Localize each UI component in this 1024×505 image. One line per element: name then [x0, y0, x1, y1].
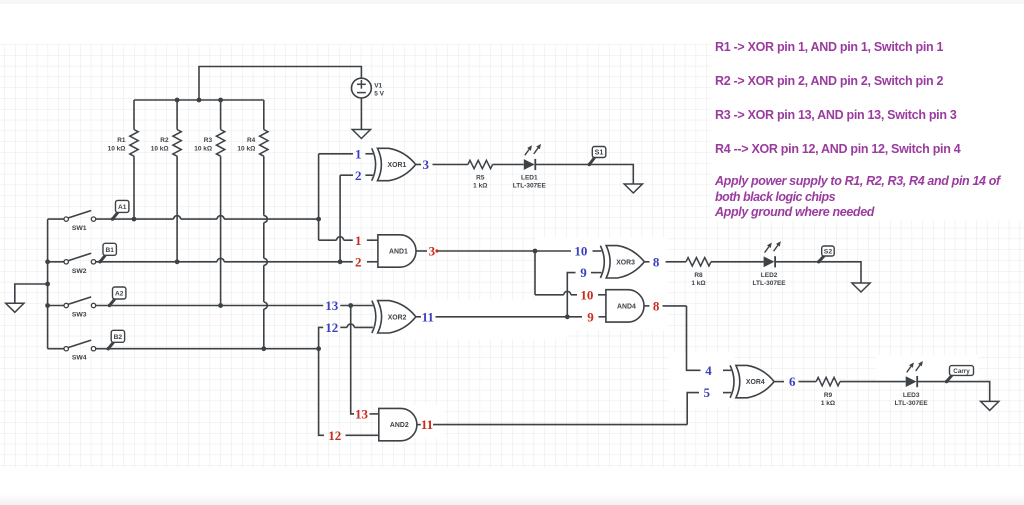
- node AND1 out marker: [435, 249, 438, 252]
- wire XOR3 out row: [666, 261, 686, 263]
- svg-text:8: 8: [653, 254, 660, 269]
- resistor R8 1 k&#937;: [686, 258, 711, 287]
- wire SW1 row: [96, 218, 174, 220]
- led LED2 LTL-307EE: [753, 241, 787, 287]
- svg-text:Carry: Carry: [953, 368, 970, 375]
- wire XOR3 pin9 connector: [567, 273, 575, 317]
- ground left: [6, 303, 24, 312]
- wire XOR1 out stub: [416, 164, 421, 166]
- wire XOR1 out row: [433, 164, 468, 166]
- wire power bus: [134, 99, 264, 101]
- wire AND2 out row: [433, 424, 687, 426]
- svg-text:S1: S1: [595, 148, 604, 157]
- resistor R4 10 k&#937;: [237, 130, 268, 157]
- wire AND1 pin1 row: [319, 239, 337, 241]
- xor gate XOR4: [730, 365, 774, 397]
- svg-text:LED2: LED2: [761, 272, 778, 279]
- led LED3 LTL-307EE: [895, 361, 929, 407]
- wire XOR4 out row: [799, 381, 817, 383]
- and gate AND2: [379, 408, 417, 440]
- svg-text:8: 8: [653, 299, 660, 314]
- wire AND2 pin12 row: [346, 434, 380, 436]
- wire R2 top: [176, 100, 178, 130]
- svg-text:1: 1: [355, 146, 362, 161]
- note line 5: [715, 174, 1000, 188]
- svg-text:5: 5: [704, 385, 711, 400]
- svg-text:R4: R4: [247, 137, 256, 144]
- wire AND1 pin2 stub: [367, 261, 378, 263]
- wire XOR1 pin2 row: [340, 174, 353, 176]
- svg-text:3: 3: [429, 244, 436, 259]
- and gate AND4: [606, 290, 644, 322]
- wire R9 to LED3: [840, 381, 906, 383]
- wire LED1 to ground corner: [536, 165, 633, 185]
- svg-text:R8: R8: [694, 272, 703, 279]
- led LED1 LTL-307EE: [513, 144, 547, 190]
- node R3-SW3: [218, 303, 223, 308]
- svg-text:10 kΩ: 10 kΩ: [194, 145, 212, 152]
- power source V1: [352, 78, 385, 98]
- svg-text:R1: R1: [117, 137, 126, 144]
- svg-text:2: 2: [355, 168, 362, 183]
- svg-text:5 V: 5 V: [374, 90, 384, 97]
- svg-text:R9: R9: [824, 392, 833, 399]
- wire XOR1 pin1 stub: [365, 153, 373, 155]
- svg-text:XOR2: XOR2: [388, 314, 407, 321]
- wire XOR2 out row: [436, 316, 583, 318]
- node SW1-branch: [316, 217, 321, 222]
- svg-text:SW3: SW3: [72, 312, 87, 319]
- wire AND2 pin12 connector: [319, 349, 324, 436]
- svg-text:LED3: LED3: [903, 392, 920, 399]
- svg-text:AND2: AND2: [390, 422, 409, 429]
- wire SW4 row: [96, 348, 319, 350]
- wire switch common vertical: [47, 219, 49, 349]
- note line 6: [715, 190, 835, 204]
- svg-text:R3: R3: [204, 137, 213, 144]
- svg-text:13: 13: [325, 298, 339, 313]
- wire R4 bottom: [263, 156, 265, 215]
- xor gate XOR3: [600, 246, 644, 278]
- wire XOR1 pin1 connector: [318, 154, 320, 240]
- wire XOR3 out stub: [645, 261, 650, 263]
- wire XOR4 pin4 stub: [723, 369, 731, 371]
- svg-text:12: 12: [325, 320, 338, 335]
- xor gate XOR2: [372, 301, 416, 333]
- wire LED3 to ground corner: [918, 382, 990, 402]
- svg-text:SW1: SW1: [72, 225, 87, 232]
- wire R1 bottom: [133, 156, 135, 219]
- node B2: [107, 330, 125, 350]
- wire AND2 out stub: [417, 424, 421, 426]
- node R1-SW1: [132, 217, 137, 222]
- node R2-SW2: [175, 259, 180, 264]
- svg-text:1 kΩ: 1 kΩ: [691, 280, 705, 287]
- svg-text:2: 2: [355, 254, 362, 269]
- node SW4-branch: [316, 346, 321, 351]
- resistor R5 1 k&#937;: [468, 160, 493, 189]
- node R4-SW4: [261, 346, 266, 351]
- svg-text:10: 10: [580, 287, 593, 302]
- svg-text:LTL-307EE: LTL-307EE: [753, 280, 787, 287]
- node bus-R2: [175, 98, 180, 103]
- svg-text:A2: A2: [115, 291, 124, 298]
- wire SW2 left: [48, 261, 64, 263]
- wire V1 top feed: [199, 67, 361, 101]
- wire AND4 to XOR4 pin4: [687, 306, 701, 370]
- node common-SW2: [45, 259, 50, 264]
- svg-text:11: 11: [421, 417, 433, 432]
- svg-text:LTL-307EE: LTL-307EE: [513, 183, 547, 190]
- wire AND2 pin13 connector: [351, 306, 354, 414]
- ground S2: [852, 283, 870, 292]
- note line 1: [715, 40, 943, 54]
- svg-text:13: 13: [355, 407, 369, 422]
- node S1: [588, 147, 606, 167]
- note line 2: [715, 74, 943, 88]
- wire XOR4 pin5 stub: [723, 392, 731, 394]
- wire SW2 row: [96, 261, 217, 263]
- node common-SW3: [45, 303, 50, 308]
- svg-text:10 kΩ: 10 kΩ: [108, 145, 126, 152]
- switch SW3: [64, 297, 96, 319]
- wire R8 to LED2: [711, 261, 764, 263]
- wire XOR3 pin9 stub: [591, 272, 601, 274]
- wire R1 top: [133, 100, 135, 130]
- node common-ground: [45, 282, 50, 287]
- wire R4 top: [263, 100, 265, 130]
- resistor R2 10 k&#937;: [151, 130, 182, 157]
- wire AND1 pin2 row: [340, 261, 353, 263]
- node bus-V1: [197, 98, 202, 103]
- svg-text:AND1: AND1: [389, 249, 408, 256]
- svg-text:XOR1: XOR1: [388, 162, 407, 169]
- wire R2 bottom: [176, 156, 178, 262]
- wire SW1 left: [48, 218, 64, 220]
- wire SW3 row to pin 13: [96, 305, 324, 307]
- svg-text:V1: V1: [374, 82, 382, 89]
- wire XOR1 pin2 connector: [339, 175, 341, 262]
- svg-text:6: 6: [789, 374, 796, 389]
- wire AND1 out stub: [416, 250, 427, 252]
- node B1: [98, 243, 116, 263]
- wire R3 top: [220, 100, 222, 130]
- wire SW3 left: [48, 305, 64, 307]
- svg-text:9: 9: [580, 265, 587, 280]
- svg-text:B2: B2: [114, 334, 123, 341]
- svg-text:LED1: LED1: [521, 175, 538, 182]
- ground under V1: [352, 130, 370, 139]
- wire XOR3 pin10 stub: [593, 250, 602, 252]
- node SW3-branch: [348, 303, 353, 308]
- note line 3: [715, 108, 957, 122]
- resistor R3 10 k&#937;: [194, 130, 225, 157]
- node bus-R3: [218, 98, 223, 103]
- svg-text:1: 1: [355, 233, 362, 248]
- wire SW4 left: [48, 348, 64, 350]
- svg-text:AND4: AND4: [617, 303, 636, 310]
- svg-text:3: 3: [423, 157, 430, 172]
- svg-text:R2: R2: [160, 137, 169, 144]
- note line 4: [715, 142, 960, 156]
- wire XOR1 pin1 row: [319, 153, 353, 155]
- switch SW1: [64, 211, 96, 233]
- svg-text:XOR3: XOR3: [616, 259, 635, 266]
- wire R5 to LED1: [493, 164, 524, 166]
- svg-text:12: 12: [328, 428, 341, 443]
- resistor R1 10 k&#937;: [108, 130, 139, 157]
- node SW2-branch: [338, 259, 343, 264]
- switch SW4: [64, 340, 96, 362]
- wire branch to AND4 pin10: [535, 294, 564, 296]
- svg-text:S2: S2: [824, 249, 833, 256]
- svg-text:R5: R5: [476, 174, 485, 181]
- node Carry: [945, 366, 974, 384]
- wire AND2 to XOR4 pin5: [687, 393, 699, 425]
- wire LED2 to ground corner: [776, 262, 861, 283]
- svg-text:XOR4: XOR4: [746, 379, 765, 386]
- svg-text:SW2: SW2: [72, 268, 87, 275]
- svg-text:1 kΩ: 1 kΩ: [473, 182, 487, 189]
- wire AND1 out row: [439, 250, 572, 252]
- svg-text:SW4: SW4: [72, 355, 87, 362]
- resistor R9 1 k&#937;: [816, 377, 840, 406]
- wire V1 to ground: [360, 98, 362, 130]
- node carry-branch: [565, 314, 570, 319]
- wire R3 bottom: [220, 156, 222, 305]
- svg-text:11: 11: [422, 309, 434, 324]
- wire XOR2 pin12 row: [340, 326, 347, 328]
- xor gate XOR1: [372, 148, 416, 180]
- node A2: [108, 287, 126, 307]
- svg-text:9: 9: [587, 309, 594, 324]
- svg-text:10 kΩ: 10 kΩ: [151, 145, 169, 152]
- node S2: [817, 246, 834, 263]
- wire XOR4 out stub: [774, 381, 784, 383]
- svg-text:4: 4: [705, 363, 712, 378]
- svg-text:10: 10: [574, 244, 587, 259]
- wire AND2 pin13 stub: [370, 413, 380, 415]
- note line 7: [715, 205, 874, 219]
- ground Carry: [981, 401, 999, 410]
- wire AND1 pin1 stub: [367, 239, 378, 241]
- svg-text:LTL-307EE: LTL-307EE: [895, 400, 929, 407]
- node sum-branch: [533, 249, 538, 254]
- ground S1: [624, 184, 642, 193]
- wire AND4 out row: [663, 305, 687, 307]
- and gate AND1: [378, 235, 416, 267]
- wire XOR2 pin12 connector: [319, 327, 324, 348]
- wire to left ground: [15, 284, 48, 303]
- wire AND4 pin10 stub: [598, 294, 606, 296]
- svg-text:B1: B1: [105, 247, 114, 254]
- node A1: [111, 200, 129, 220]
- wire XOR2 out stub: [416, 316, 421, 318]
- wire XOR1 pin2 stub: [365, 174, 373, 176]
- svg-text:1 kΩ: 1 kΩ: [821, 400, 835, 407]
- switch SW2: [64, 253, 96, 275]
- wire AND4 pin9 stub: [599, 316, 607, 318]
- svg-text:10 kΩ: 10 kΩ: [237, 145, 255, 152]
- svg-text:A1: A1: [118, 204, 127, 211]
- wire AND4 out stub: [644, 305, 650, 307]
